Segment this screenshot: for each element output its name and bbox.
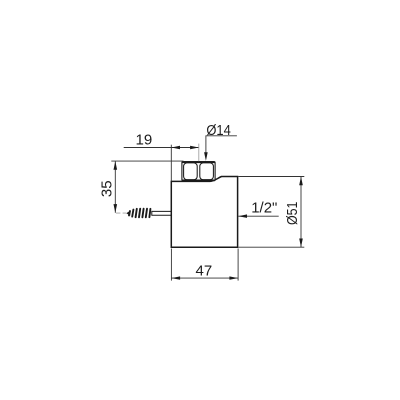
- label D14 leader: [206, 136, 237, 153]
- svg-text:1/2": 1/2": [251, 199, 277, 216]
- label 1/2 inch arrow: [238, 214, 247, 218]
- dim 19 line: [124, 147, 199, 149]
- label D14 arrow: [204, 152, 208, 161]
- hex nut outer: [182, 162, 215, 181]
- dim 19 right extension centerline: [198, 144, 200, 162]
- dim 19 left extension line: [170, 145, 172, 181]
- dim 47 left extension line: [170, 249, 172, 281]
- screw threads: [129, 209, 150, 218]
- dim D51 bottom extension line: [238, 246, 304, 248]
- hex nut left facet: [184, 163, 198, 180]
- dim 35 bottom arrow: [114, 204, 118, 213]
- dim 35 top arrow: [114, 161, 118, 170]
- dim 47 line: [171, 277, 238, 279]
- screw shank: [152, 211, 172, 216]
- dim D51 top extension line: [238, 176, 304, 178]
- screw axis centerline: [116, 212, 126, 214]
- svg-text:Ø51: Ø51: [284, 202, 301, 226]
- svg-text:47: 47: [196, 262, 213, 279]
- dim 35 line: [114, 161, 116, 213]
- hex nut top edge thick: [183, 161, 215, 163]
- dim D51 top arrow: [299, 177, 303, 186]
- svg-text:Ø14: Ø14: [206, 122, 231, 139]
- dim 47 right extension line: [237, 249, 239, 281]
- dim 35 top extension line: [111, 160, 183, 162]
- hex nut right facet: [200, 163, 214, 180]
- dim D51 bottom arrow: [299, 239, 303, 248]
- label 1/2 inch leader: [238, 215, 278, 217]
- screw tip: [126, 211, 130, 216]
- hex nut base: [182, 179, 215, 181]
- dim 19 left arrow: [171, 146, 180, 149]
- dim D51 line: [300, 177, 302, 248]
- dim 47 left arrow: [171, 276, 180, 279]
- body outline of fitting: [171, 177, 237, 248]
- dim 19 right arrow: [190, 146, 199, 149]
- svg-text:35: 35: [99, 180, 116, 197]
- svg-text:19: 19: [136, 132, 153, 149]
- dim 47 right arrow: [229, 276, 238, 279]
